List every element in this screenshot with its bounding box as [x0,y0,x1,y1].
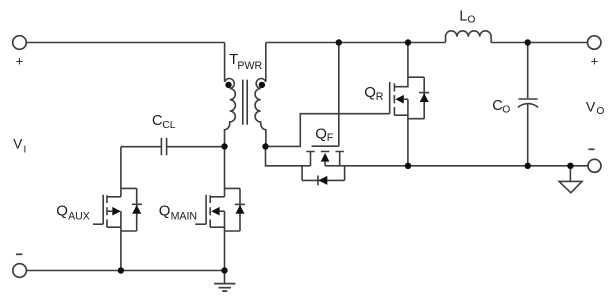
Q_MAIN drain bend [210,196,224,198]
svg-text:F: F [327,132,334,144]
wire primary bottom lead to Q_MAIN drain [224,147,226,197]
svg-text:Q: Q [159,203,171,220]
Q_AUX source lead [120,211,122,270]
svg-text:AUX: AUX [68,210,90,222]
wire secondary bottom lead down and right to Q_F drain [266,147,311,166]
Q_AUX body arrow (points right) [112,207,121,216]
svg-text:V: V [13,136,22,151]
Q_AUX gate bar [102,195,104,224]
wire rail after inductor to output plus [491,42,587,44]
Q_R diode triangle [420,93,429,102]
Q_F diode cathode bar [317,176,319,186]
Q_AUX diode cathode bar [132,203,142,205]
Q_F diode triangle [318,176,327,185]
Q_MAIN source lead [224,211,226,270]
output terminal minus [588,159,601,172]
bottom-left rail [27,270,225,272]
svg-text:PWR: PWR [237,60,262,72]
ground triangle right (open) [559,181,582,192]
Q_MAIN body diode loop [225,188,241,231]
node Q_R source junction [405,163,411,169]
node primary bottom junction [221,143,227,149]
node Q_R drain rail junction [405,39,411,45]
node C_O top junction [525,39,531,45]
Q_F body diode loop [302,166,345,181]
Q_MAIN body arrow (points left) [211,207,219,216]
input terminal minus [13,264,27,278]
wire C_O bottom lead [527,104,529,165]
secondary top rail [266,42,446,44]
svg-text:O: O [502,105,510,116]
Q_R source lead [407,99,409,166]
svg-text:Q: Q [315,125,327,142]
node Q_F gate rail junction [336,39,342,45]
capacitor C_O curved plate [518,104,538,108]
Q_AUX gate lead [93,223,103,225]
svg-text:R: R [376,91,384,103]
Q_AUX body arrow lead [107,210,112,212]
node secondary phase dot [259,82,265,88]
Q_MAIN diode cathode bar [235,203,245,205]
capacitor C_CL [121,146,225,148]
Q_R bottom segment tee [394,114,408,116]
transformer T_PWR primary winding [225,43,236,147]
capacitor C_CL plates [161,138,166,155]
Q_MAIN bottom segment tee [210,226,224,228]
Q_R body arrow lead [404,98,408,100]
svg-text:L: L [459,9,467,25]
node Q_AUX source junction [118,267,124,273]
svg-text:MAIN: MAIN [171,210,197,222]
transformer core [243,80,247,125]
capacitor C_O [527,43,529,99]
svg-text:C: C [152,113,162,129]
node C_O bottom junction [525,163,531,169]
label minus output [588,148,594,150]
wire C_CL left branch to Q_AUX drain [120,147,122,197]
Q_R channel segments [393,83,395,115]
Q_F gate lead from rail [338,43,340,147]
node Q_MAIN source ground junction [221,267,227,273]
Q_R body arrow (points left) [395,95,403,104]
Q_R gate wire to secondary bottom node [266,114,390,147]
Q_F drain contact [310,152,312,166]
svg-text:Q: Q [364,84,376,101]
output terminal plus [588,36,601,49]
node primary phase dot [225,82,231,88]
capacitor C_O top plate [519,98,538,100]
inductor L_O [446,31,492,43]
ground stub left [224,271,226,284]
svg-text:C: C [492,98,503,114]
input terminal plus [13,36,27,50]
svg-text:Q: Q [56,203,68,220]
Q_R mosfet gate bar [389,82,391,114]
Q_AUX drain bend [107,196,121,198]
svg-text:I: I [24,145,27,156]
Q_F body arrow lead [324,162,326,166]
svg-text:O: O [596,106,604,117]
bottom secondary rail right of Q_F [325,165,588,167]
Q_F source contact [339,152,341,166]
Q_AUX diode triangle [132,205,141,214]
Q_MAIN diode triangle [236,205,245,214]
Q_MAIN gate lead [195,223,206,225]
ground stub right [569,166,571,182]
Q_R drain lead [394,43,408,87]
label minus input [16,253,22,255]
svg-text:CL: CL [162,120,175,131]
Q_R body diode loop [408,77,424,119]
Q_AUX channel segments [106,195,108,227]
Q_AUX body diode loop [121,188,137,231]
wire top-left rail [26,42,224,44]
Q_F channel segments [306,151,344,153]
Q_F gate bar [312,145,339,147]
svg-text:+: + [591,53,599,68]
node secondary bottom junction [262,143,268,149]
ground bars left [214,284,235,292]
Q_MAIN body arrow lead [219,210,225,212]
node ground junction right [567,163,573,169]
Q_R diode cathode bar [419,92,429,94]
Q_MAIN channel segments [209,195,211,227]
Q_AUX bottom segment tee [107,226,121,228]
svg-text:+: + [16,53,24,68]
Q_F body arrow (points up) [321,153,330,162]
svg-text:O: O [467,15,475,26]
svg-text:V: V [586,99,596,115]
transformer T_PWR secondary winding [255,43,266,147]
Q_MAIN gate bar [205,195,207,224]
